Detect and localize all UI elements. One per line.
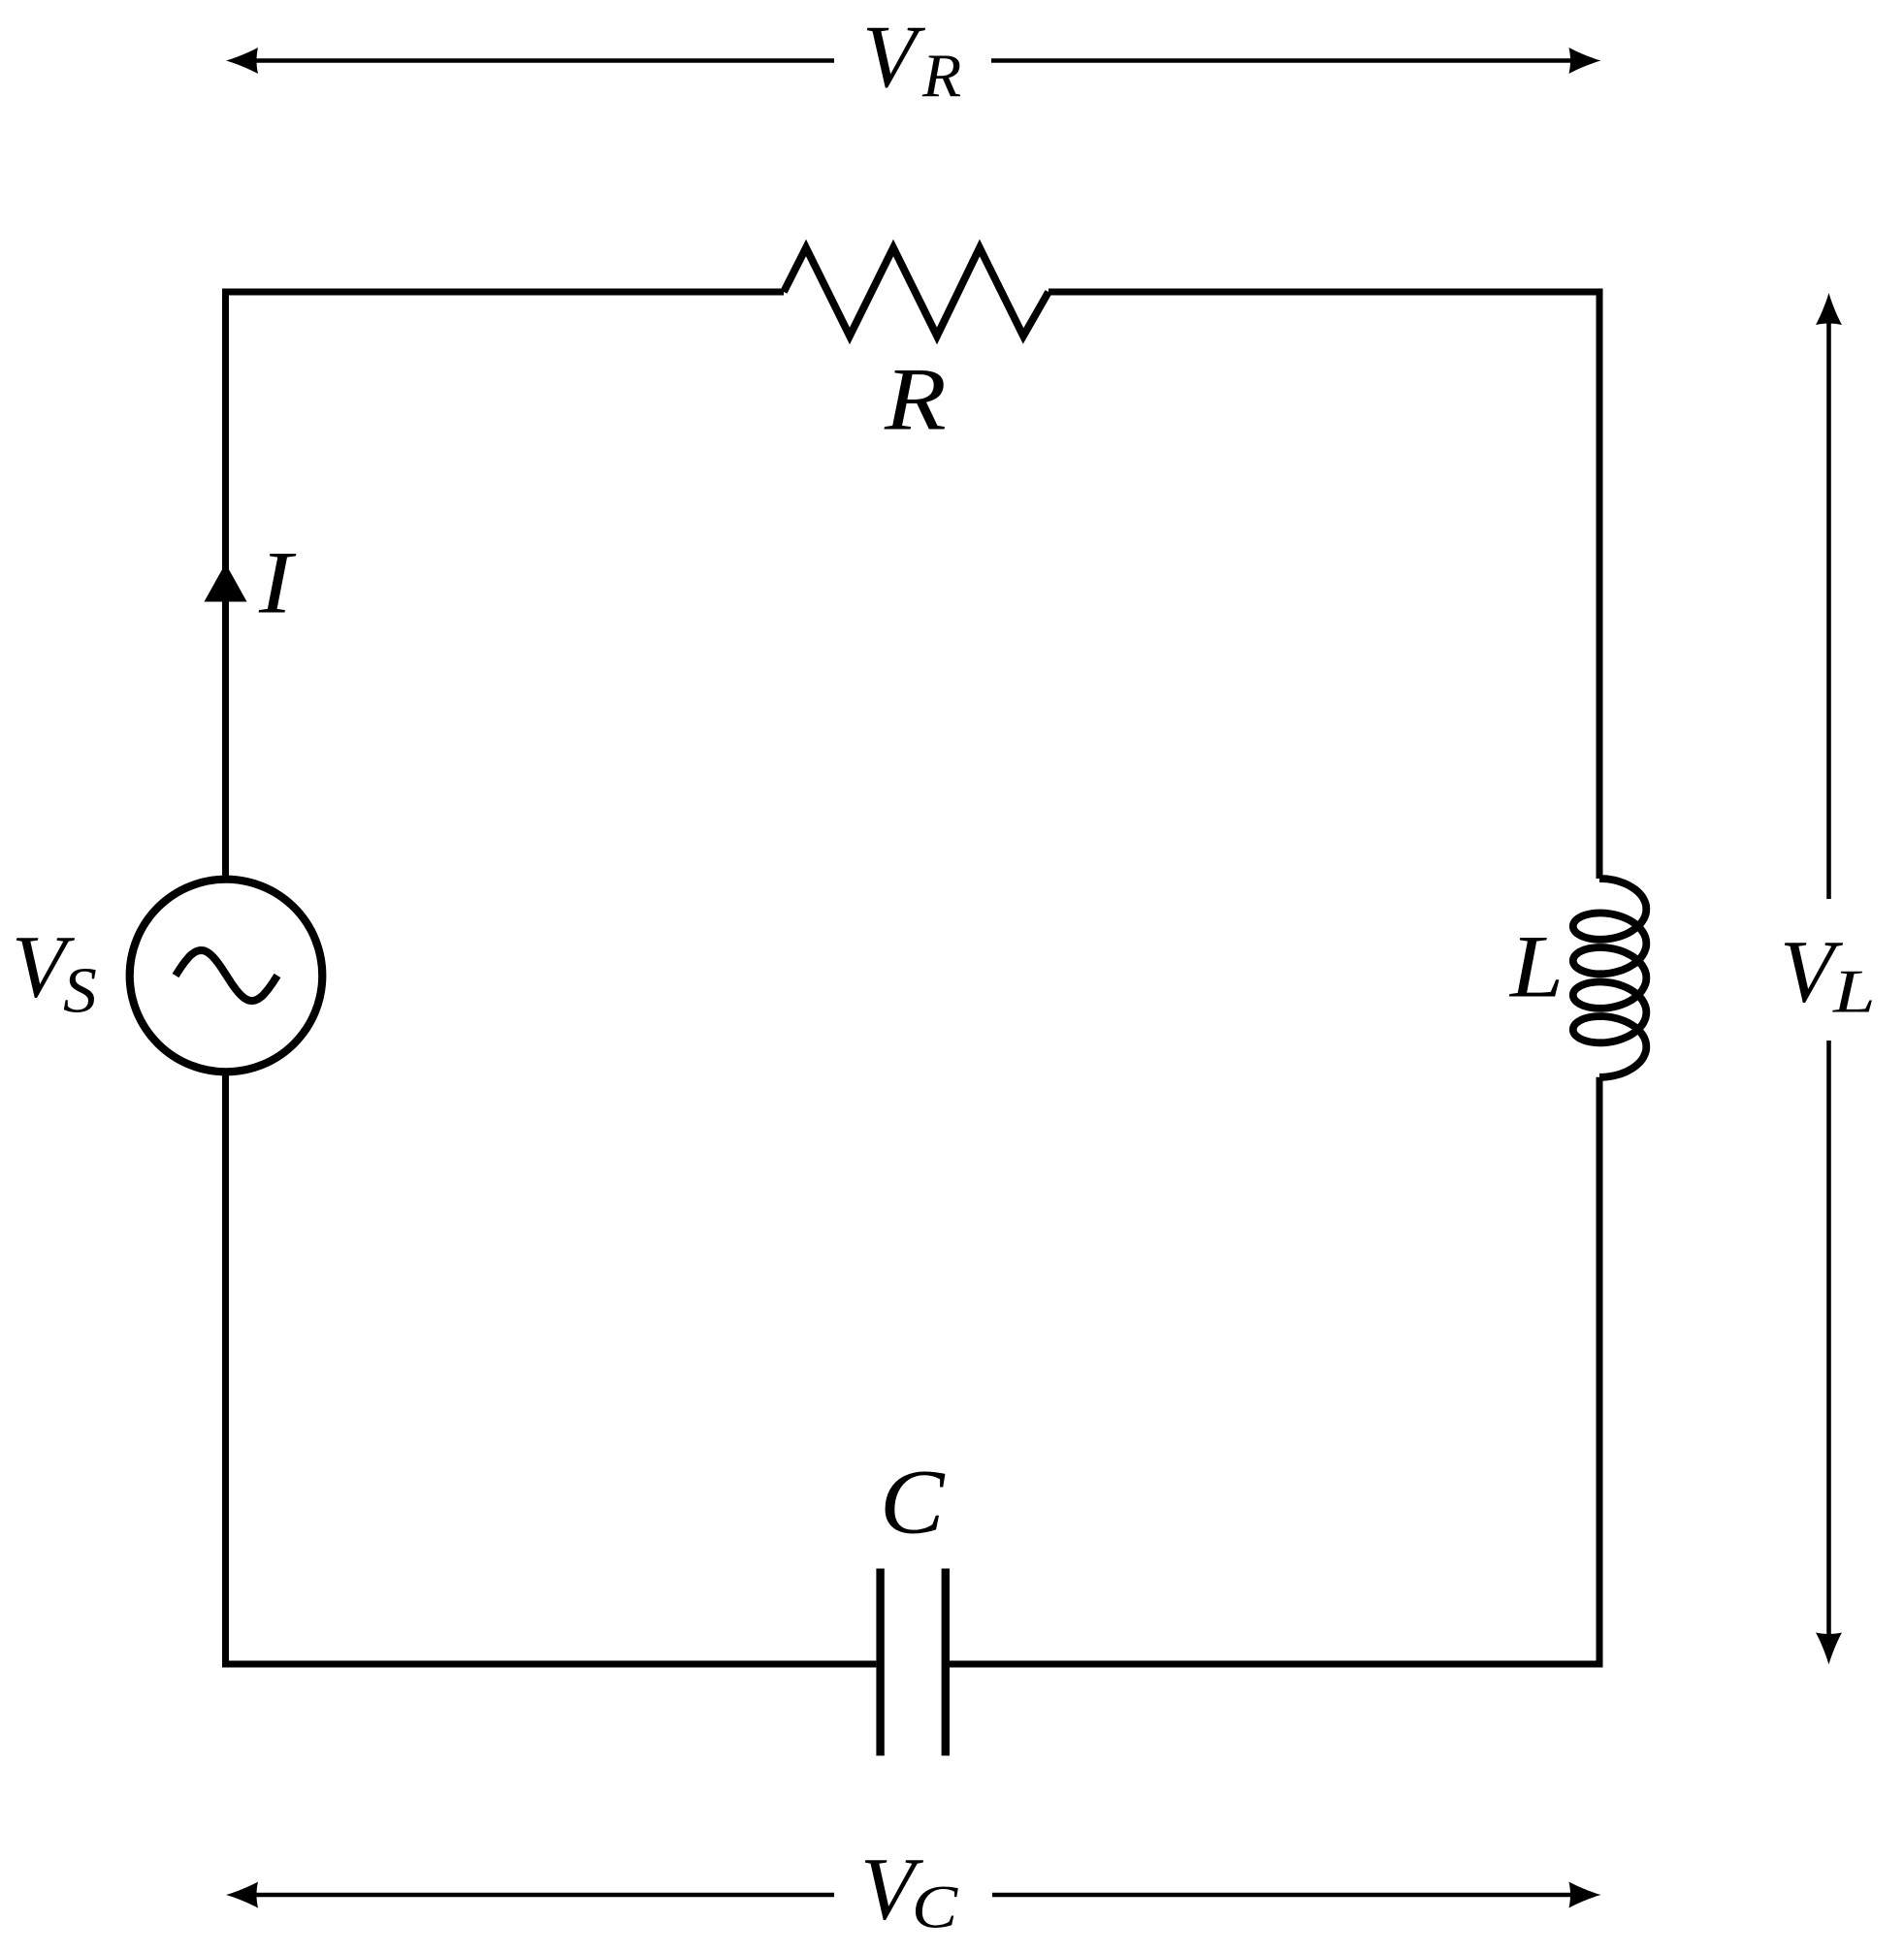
resistor R — [784, 248, 1049, 336]
V_L arrow shaft lower part — [1826, 1041, 1831, 1636]
V_R arrow shaft right part — [991, 58, 1572, 63]
V_C arrowhead right — [1569, 1882, 1601, 1908]
V_C arrowhead left — [226, 1882, 258, 1908]
voltage source VS circle — [130, 880, 323, 1073]
wire right upper (node B to inductor) — [1597, 289, 1603, 880]
wire left lower (source to node D) — [222, 1072, 229, 1667]
V_L arrowhead bottom — [1816, 1633, 1842, 1665]
svg-text:V: V — [862, 7, 926, 106]
V_L arrow shaft upper part — [1826, 322, 1831, 899]
V_C arrow shaft left part — [255, 1893, 834, 1898]
svg-text:R: R — [884, 350, 947, 449]
wire bottom-right segment — [950, 1661, 1599, 1668]
V_R arrowhead right — [1569, 48, 1601, 74]
capacitor C left plate — [876, 1569, 884, 1756]
svg-text:I: I — [258, 534, 297, 633]
inductor L coil — [1573, 879, 1647, 1077]
V_R arrowhead left — [226, 48, 258, 74]
V_R arrow shaft left part — [255, 58, 834, 63]
wire right lower (inductor to node C) — [1597, 1077, 1603, 1668]
voltage source sine symbol — [176, 950, 277, 1001]
wire left upper (node A to source) — [222, 289, 229, 880]
svg-text:L: L — [1508, 917, 1564, 1016]
svg-text:S: S — [63, 954, 97, 1026]
svg-text:C: C — [912, 1873, 958, 1941]
svg-text:L: L — [1832, 957, 1876, 1026]
svg-text:C: C — [880, 1452, 946, 1554]
svg-text:R: R — [921, 42, 961, 111]
wire top-right segment — [1049, 289, 1599, 296]
V_L arrowhead top — [1816, 293, 1842, 325]
capacitor C right plate — [942, 1569, 950, 1756]
V_C arrow shaft right part — [992, 1893, 1572, 1898]
wire bottom-left segment — [226, 1661, 877, 1668]
wire top-left segment — [226, 289, 785, 296]
current arrow I head on left wire — [205, 563, 247, 602]
